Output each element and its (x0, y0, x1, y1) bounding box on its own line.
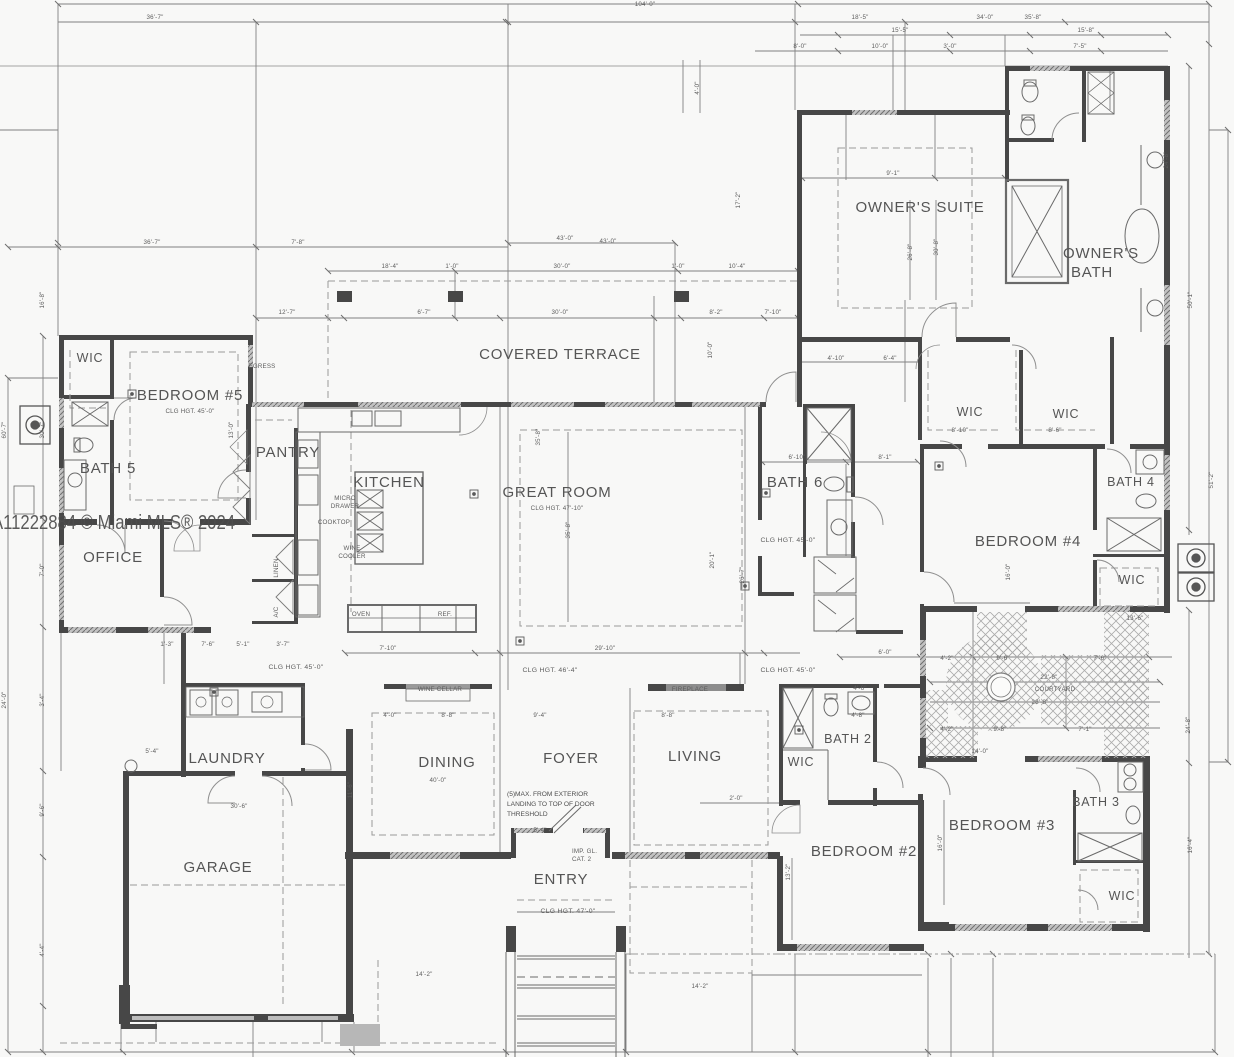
suite south wall (797, 337, 922, 342)
svg-text:ENTRY: ENTRY (534, 871, 589, 888)
svg-text:60'-7": 60'-7" (1, 422, 8, 439)
svg-text:16'-0": 16'-0" (937, 835, 944, 852)
svg-text:24'-8": 24'-8" (1163, 152, 1170, 169)
entry porch (125, 760, 626, 1057)
svg-text:30'-0": 30'-0" (554, 263, 571, 270)
vertical x795 (794, 4, 796, 110)
svg-text:14'-2": 14'-2" (692, 983, 709, 990)
bath2 east wall (873, 684, 877, 762)
bedroom3 south wall (918, 924, 1150, 931)
svg-text:7'-6": 7'-6" (201, 641, 214, 648)
dash-dot property line (626, 953, 1215, 955)
svg-text:CLG HGT. 47'-10": CLG HGT. 47'-10" (531, 505, 584, 512)
bath2 wic divider (783, 749, 828, 751)
left vertical extension x58 (57, 4, 59, 336)
svg-text:11'-6": 11'-6" (347, 782, 354, 799)
wic5 bath5 divider wall (110, 335, 114, 397)
svg-text:3'-4": 3'-4" (39, 693, 46, 706)
bath2 shower (783, 688, 813, 748)
bedroom2 top wall (779, 800, 800, 805)
svg-text:4'-10": 4'-10" (828, 355, 845, 362)
svg-text:34'-0": 34'-0" (977, 14, 994, 21)
svg-text:17'-2": 17'-2" (735, 192, 742, 209)
living tray ceiling (634, 711, 768, 845)
svg-text:4'-0": 4'-0" (383, 712, 396, 719)
svg-text:WINE CELLAR: WINE CELLAR (418, 686, 462, 693)
svg-text:EGRESS: EGRESS (249, 363, 276, 370)
svg-text:2'-0": 2'-0" (729, 795, 742, 802)
svg-text:9'-4": 9'-4" (533, 712, 546, 719)
svg-text:BATH: BATH (1071, 264, 1113, 281)
svg-text:4'-8": 4'-8" (851, 712, 864, 719)
svg-text:104'-0": 104'-0" (635, 1, 656, 8)
svg-text:CLG HGT. 47'-0": CLG HGT. 47'-0" (540, 908, 595, 915)
bottom rows (8, 1051, 1215, 1053)
vertical x508 (507, 4, 509, 690)
patio below living (630, 860, 752, 973)
svg-text:15'-5": 15'-5" (892, 27, 909, 34)
laundry west wall (181, 627, 186, 777)
bath4 wic divider (1093, 554, 1164, 557)
svg-text:(5)MAX. FROM EXTERIOR: (5)MAX. FROM EXTERIOR (507, 791, 588, 798)
svg-text:13'-0": 13'-0" (228, 422, 235, 439)
svg-text:10'-0": 10'-0" (872, 43, 889, 50)
bedroom2 south wall (777, 944, 924, 951)
owner tub (1125, 209, 1159, 263)
bedroom3 east outer wall (1143, 756, 1150, 932)
svg-text:6'-7": 6'-7" (417, 309, 430, 316)
wic5 shelves (70, 350, 106, 408)
courtyard fountain (987, 673, 1015, 701)
svg-text:LIVING: LIVING (668, 748, 722, 765)
living south wall (612, 852, 780, 859)
svg-text:BATH 2: BATH 2 (824, 732, 872, 746)
svg-text:CLG HGT. 46'-4": CLG HGT. 46'-4" (522, 667, 577, 674)
svg-text:10'-0": 10'-0" (707, 342, 714, 359)
svg-text:8'-6": 8'-6" (1048, 427, 1061, 434)
svg-text:3'-0": 3'-0" (943, 43, 956, 50)
svg-text:THRESHOLD: THRESHOLD (507, 811, 548, 818)
svg-text:6'-10": 6'-10" (789, 454, 806, 461)
owner suite tray ceiling (838, 148, 972, 308)
svg-text:DINING: DINING (418, 754, 475, 771)
svg-text:30'-0": 30'-0" (552, 309, 569, 316)
svg-text:13'-6": 13'-6" (1127, 615, 1144, 622)
garage west wall (123, 771, 129, 1022)
keyed note squares (128, 390, 943, 734)
bath3 shower (1078, 833, 1142, 861)
kitchen sink counter (298, 408, 460, 432)
svg-text:22'-8": 22'-8" (1041, 674, 1058, 681)
owner shower (1006, 180, 1068, 283)
bedroom5 east wall lower (246, 404, 251, 472)
svg-text:CLG HGT. 45'-0": CLG HGT. 45'-0" (268, 664, 323, 671)
top dim line 1 (58, 3, 1209, 5)
svg-text:1'-3": 1'-3" (160, 641, 173, 648)
row y247 (8, 246, 508, 248)
hall west wall x758 (758, 404, 762, 520)
door arcs (97, 113, 1131, 910)
svg-text:7'-10": 7'-10" (380, 645, 397, 652)
svg-text:7'-6": 7'-6" (1093, 655, 1106, 662)
wic3 shelves (1080, 870, 1138, 922)
office bay (14, 486, 34, 514)
svg-text:20'-1": 20'-1" (709, 552, 716, 569)
wic1 wic2 shelves (928, 350, 1000, 430)
laundry east wall (301, 683, 305, 745)
svg-text:7'-10": 7'-10" (765, 309, 782, 316)
full width line (0, 65, 1168, 67)
laundry top wall (181, 683, 305, 687)
garage lines (130, 884, 345, 886)
svg-text:COOLER: COOLER (338, 553, 366, 560)
svg-text:A/C: A/C (273, 606, 280, 617)
right verticals (1208, 4, 1210, 954)
garage south wall (121, 1014, 354, 1022)
svg-text:4'-0": 4'-0" (694, 81, 701, 94)
west outer wall (59, 335, 64, 633)
office east wall (160, 521, 164, 597)
svg-text:PANTRY: PANTRY (256, 444, 320, 461)
svg-text:35'-8": 35'-8" (565, 522, 572, 539)
svg-text:40'-0": 40'-0" (430, 777, 447, 784)
svg-text:BATH 3: BATH 3 (1072, 795, 1120, 809)
svg-text:14'-0": 14'-0" (972, 748, 989, 755)
bath3 west wall (1073, 790, 1076, 865)
vertical x683 (682, 60, 684, 113)
closet column wall (294, 428, 298, 623)
bath4 col west wall (1093, 448, 1097, 530)
svg-text:LANDING TO TOP OF DOOR: LANDING TO TOP OF DOOR (507, 801, 595, 808)
garage east wall (346, 729, 353, 1022)
svg-text:4'-6": 4'-6" (853, 685, 866, 692)
fireplace wall (648, 684, 666, 691)
great room tray ceiling (520, 430, 742, 626)
owner bath wall mid (1005, 142, 1009, 182)
svg-text:28'-8": 28'-8" (1032, 699, 1049, 706)
svg-text:WIC: WIC (957, 405, 984, 419)
bath6 east wall (851, 462, 855, 497)
svg-text:7'-5": 7'-5" (1073, 43, 1086, 50)
bedroom2 step wall (919, 922, 949, 927)
owner bath top wall (1008, 66, 1170, 71)
svg-text:COURTYARD: COURTYARD (1035, 686, 1076, 693)
svg-text:7'-8": 7'-8" (291, 239, 304, 246)
closet bifold doors (230, 430, 293, 614)
svg-text:OVEN: OVEN (352, 611, 370, 618)
wine cellar wall (384, 684, 406, 689)
svg-text:BEDROOM #2: BEDROOM #2 (811, 843, 917, 860)
bath5 vanity (64, 460, 86, 510)
tiny labels (144, 1, 1144, 990)
bath2 toilet (824, 698, 838, 716)
svg-text:30'-7": 30'-7" (39, 422, 46, 439)
svg-text:15'-8": 15'-8" (1078, 27, 1095, 34)
svg-text:GARAGE: GARAGE (184, 859, 253, 876)
svg-text:5'-1": 5'-1" (236, 641, 249, 648)
bedroom5 ceiling (130, 352, 238, 500)
svg-text:7'-1": 7'-1" (1078, 726, 1091, 733)
laundry counter (186, 687, 304, 717)
svg-text:16'-0": 16'-0" (1005, 564, 1012, 581)
svg-text:4'-4": 4'-4" (39, 943, 46, 956)
office south wall (59, 627, 211, 633)
misc extension left (8, 377, 58, 379)
svg-text:1'-0": 1'-0" (445, 263, 458, 270)
svg-text:6'-0": 6'-0" (878, 649, 891, 656)
svg-text:4'-2": 4'-2" (940, 726, 953, 733)
svg-text:9'-6": 9'-6" (39, 803, 46, 816)
svg-text:18'-4": 18'-4" (382, 263, 399, 270)
svg-text:FOYER: FOYER (543, 750, 599, 767)
stoop pad (340, 1024, 380, 1046)
owner suite west wall (797, 110, 802, 407)
svg-text:9'-8": 9'-8" (993, 726, 1006, 733)
vertical x256 (255, 22, 257, 520)
svg-text:8'-2": 8'-2" (709, 309, 722, 316)
svg-text:BEDROOM #3: BEDROOM #3 (949, 817, 1055, 834)
svg-text:24'-0": 24'-0" (1, 692, 8, 709)
svg-text:24'-8": 24'-8" (1185, 717, 1192, 734)
top dim line 2 (58, 21, 1209, 23)
svg-text:30'-8": 30'-8" (933, 239, 940, 256)
garage top wall (123, 771, 235, 776)
svg-text:CLG HGT. 45'-0": CLG HGT. 45'-0" (760, 667, 815, 674)
svg-text:43'-0": 43'-0" (600, 238, 617, 245)
svg-text:LINEN: LINEN (273, 558, 280, 577)
courtyard top-left wall (920, 606, 977, 612)
owner suite top wall (797, 110, 1010, 115)
bath6 toilet (824, 477, 844, 491)
svg-text:WIC: WIC (1053, 407, 1080, 421)
svg-text:43'-0": 43'-0" (557, 235, 574, 242)
garage column bubble (125, 760, 137, 772)
svg-text:12'-7": 12'-7" (279, 309, 296, 316)
dining south wall (345, 852, 511, 859)
svg-text:7'-0": 7'-0" (39, 563, 46, 576)
svg-text:8'-1": 8'-1" (878, 454, 891, 461)
svg-text:51'-2": 51'-2" (1208, 472, 1215, 489)
svg-text:36'-7": 36'-7" (144, 239, 161, 246)
svg-text:BEDROOM #5: BEDROOM #5 (137, 387, 243, 404)
svg-text:WIC: WIC (1119, 573, 1146, 587)
hall south wall y594 (758, 592, 794, 596)
inner long verticals (499, 405, 501, 852)
svg-text:BEDROOM #4: BEDROOM #4 (975, 533, 1081, 550)
kitchen west counter strip (296, 432, 320, 617)
entry double door diagonals (549, 805, 576, 831)
svg-text:5'-4": 5'-4" (145, 748, 158, 755)
svg-text:6'-4": 6'-4" (883, 355, 896, 362)
svg-text:36'-7": 36'-7" (147, 14, 164, 21)
svg-text:IMP. GL.: IMP. GL. (572, 848, 597, 855)
terrace posts (337, 291, 689, 302)
right outer wall (1164, 66, 1170, 613)
svg-text:MICRO: MICRO (334, 495, 356, 502)
bath6 wc rooms (814, 557, 856, 593)
svg-text:13'-2": 13'-2" (785, 864, 792, 881)
svg-text:CLG HGT. 45'-0": CLG HGT. 45'-0" (760, 537, 815, 544)
entry note (507, 791, 597, 863)
bedroom5 east wall upper (248, 335, 253, 407)
svg-text:35'-8": 35'-8" (535, 429, 542, 446)
svg-text:9'-1": 9'-1" (886, 170, 899, 177)
dashed lines (60, 148, 1158, 1043)
bath3 vanity (1118, 762, 1143, 792)
bedroom5 top wall (59, 335, 253, 340)
owner vanity (1140, 145, 1142, 205)
courtyard dim lines (900, 656, 1172, 658)
svg-text:8'-0": 8'-0" (793, 43, 806, 50)
bath6 shower walls (803, 404, 855, 408)
dining tray ceiling (372, 713, 494, 835)
svg-text:KITCHEN: KITCHEN (353, 474, 424, 491)
courtyard west wall (920, 606, 926, 768)
svg-text:26'-8": 26'-8" (907, 244, 914, 261)
apron (60, 1042, 500, 1044)
AC pads (20, 406, 1214, 601)
svg-text:30'-6": 30'-6" (231, 803, 248, 810)
svg-text:A11222884 © Miami MLS® 2024: A11222884 © Miami MLS® 2024 (0, 511, 235, 534)
svg-text:BATH 6: BATH 6 (767, 474, 823, 491)
entry upper dashes (517, 899, 615, 901)
bath5 shower (72, 402, 108, 426)
bath2 west wall (779, 684, 783, 806)
bedroom5 south wall (59, 519, 97, 525)
bedroom4 south wall (1025, 606, 1170, 612)
kitchen fixtures (296, 408, 476, 632)
wine cellar counter (406, 689, 470, 701)
svg-text:3'-7": 3'-7" (276, 641, 289, 648)
bath4 fixtures (1136, 450, 1164, 474)
svg-text:10'-4": 10'-4" (729, 263, 746, 270)
kitchen island (355, 472, 423, 564)
svg-text:WINE: WINE (344, 545, 361, 552)
svg-text:1'-0": 1'-0" (671, 263, 684, 270)
svg-text:4'-2": 4'-2" (940, 655, 953, 662)
svg-text:OWNER'S: OWNER'S (1063, 245, 1139, 262)
svg-text:OFFICE: OFFICE (83, 549, 143, 566)
svg-text:OWNER'S SUITE: OWNER'S SUITE (855, 199, 984, 216)
terrace roof line (328, 280, 798, 282)
oven ref counter (348, 605, 476, 632)
bedroom2 west wall lower (777, 856, 783, 951)
right top rows (892, 35, 894, 110)
bath fixtures (14, 72, 1164, 861)
bedroom3 west wall (918, 756, 923, 768)
wic bottom wall (920, 444, 962, 449)
bath3 wic divider (1073, 860, 1145, 863)
owner suite dims (802, 177, 1005, 179)
svg-text:CLG HGT. 45'-0": CLG HGT. 45'-0" (165, 408, 214, 415)
room labels (77, 199, 1155, 903)
bedroom2 east wall (919, 800, 924, 927)
svg-text:COOKTOP: COOKTOP (318, 519, 350, 526)
svg-text:8'-8": 8'-8" (441, 712, 454, 719)
svg-text:5'-4": 5'-4" (533, 827, 546, 834)
left edge verticals (7, 378, 9, 1052)
bath6 west wall lower (803, 462, 806, 557)
wic verticals (918, 337, 922, 440)
svg-text:50'-1": 50'-1" (1187, 292, 1194, 309)
svg-text:8'-8": 8'-8" (661, 712, 674, 719)
owner toilets (1022, 82, 1038, 102)
svg-text:18'-5": 18'-5" (852, 14, 869, 21)
bath6 vanity (827, 500, 852, 555)
bath2 top wall (779, 684, 879, 688)
svg-text:FIREPLACE: FIREPLACE (672, 686, 708, 693)
svg-text:LAUNDRY: LAUNDRY (188, 750, 265, 767)
back wall of house (248, 402, 766, 407)
svg-text:16'-8": 16'-8" (39, 292, 46, 309)
bedroom3 top walls (920, 756, 977, 762)
courtyard hatched paving (926, 612, 1149, 758)
owner toilet room walls (1005, 66, 1009, 142)
svg-text:REF.: REF. (438, 611, 452, 618)
svg-text:WIC: WIC (788, 755, 815, 769)
svg-text:GREAT ROOM: GREAT ROOM (502, 484, 611, 501)
svg-text:16'-4": 16'-4" (1187, 837, 1194, 854)
svg-text:35'-8": 35'-8" (1025, 14, 1042, 21)
bath6 shower X (807, 408, 851, 460)
bath3 toilet (1126, 806, 1140, 824)
svg-text:WIC: WIC (1109, 889, 1136, 903)
svg-text:BATH 4: BATH 4 (1107, 475, 1155, 489)
terrace dim rows (328, 270, 800, 272)
entry vestibule walls (511, 828, 553, 833)
bath5 toilet (75, 438, 93, 452)
extra extension lines (653, 296, 655, 402)
bath2 sink (848, 692, 874, 714)
svg-text:29'-10": 29'-10" (595, 645, 616, 652)
svg-text:26'-7": 26'-7" (739, 567, 746, 584)
svg-text:9'-6": 9'-6" (996, 655, 1009, 662)
svg-text:14'-2": 14'-2" (416, 971, 433, 978)
svg-text:COVERED TERRACE: COVERED TERRACE (479, 346, 641, 363)
svg-text:DRAWER: DRAWER (331, 503, 360, 510)
svg-text:WIC: WIC (77, 351, 104, 365)
svg-text:BATH 5: BATH 5 (80, 460, 136, 477)
svg-text:8'-10": 8'-10" (952, 427, 969, 434)
svg-text:CAT. 2: CAT. 2 (572, 856, 592, 863)
kitchen row (345, 652, 800, 654)
